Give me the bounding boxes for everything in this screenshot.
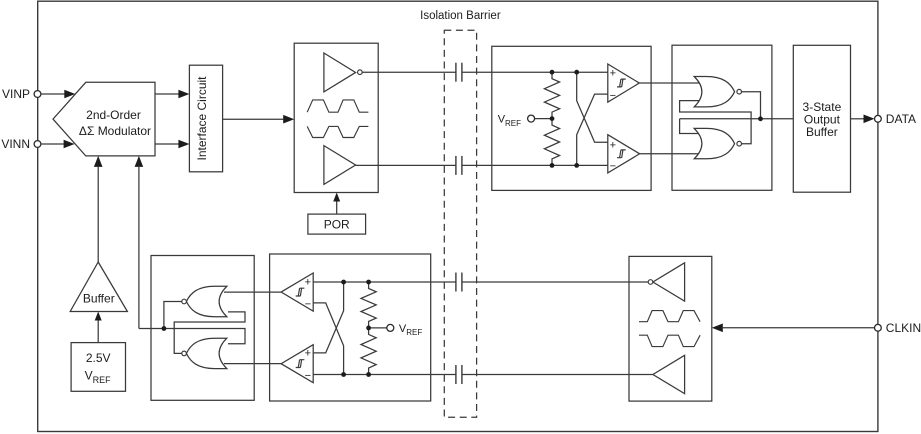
wire POR to TX block [333, 193, 340, 215]
3-state output buffer block [793, 45, 850, 192]
wire VINP to modulator [41, 90, 75, 99]
wire C3 to comparator block top line [313, 281, 456, 283]
pin VINN [1, 137, 41, 151]
svg-text:VINP: VINP [2, 87, 30, 101]
comparator U1 [608, 64, 640, 102]
NOR gate G3 [182, 286, 227, 316]
label: Isolation Barrier [420, 10, 501, 22]
buffer (VREF buffer) triangle [70, 262, 127, 312]
wire output node to G4 input [164, 329, 245, 344]
wire U3 output to NOR G3 [224, 291, 281, 293]
wire 2.5V VREF to buffer [95, 312, 102, 343]
wire U1 output to NOR G1 [639, 82, 703, 84]
buffer A3 (inverting, clock top) [648, 263, 684, 301]
svg-text:−: − [610, 90, 616, 102]
buffer A2 (TX bottom) [324, 146, 356, 185]
comparator U4 [281, 345, 313, 383]
node VREF (top) [498, 114, 552, 128]
pin VINP [2, 87, 41, 101]
svg-text:2nd-Order: 2nd-Order [86, 108, 141, 122]
svg-text:−: − [305, 370, 311, 382]
wire C4 to clock receiver A4 [462, 374, 653, 376]
buffer A1 (inverting, TX top) [324, 53, 362, 92]
buffer A4 (clock bottom) [653, 355, 685, 393]
wire C1 to comparator U1 + input [462, 71, 608, 73]
wire cross-couple from bottom line to U1 - input [577, 94, 608, 165]
svg-text:VINN: VINN [1, 137, 30, 151]
POR block [308, 214, 366, 234]
wire G3 output to output node [164, 302, 182, 329]
isolation barrier (dashed) [444, 30, 476, 417]
node clock latch output [162, 326, 167, 331]
wire VINN to modulator [41, 140, 75, 149]
svg-text:+: + [305, 277, 311, 289]
wire interface to TX block [223, 115, 295, 124]
wire U2 output to NOR G2 [640, 153, 703, 155]
svg-text:Interface Circuit: Interface Circuit [195, 76, 209, 161]
waveform glyph (TX lower) [307, 126, 368, 137]
wire A2 output to C2 [356, 164, 456, 166]
svg-text:2.5V: 2.5V [86, 351, 111, 365]
svg-text:Isolation Barrier: Isolation Barrier [420, 10, 501, 22]
resistor R3 [361, 282, 376, 328]
resistor R2 [544, 119, 559, 166]
pin CLKIN [875, 321, 921, 335]
svg-text:VREF: VREF [399, 323, 422, 337]
node Q (latch output) [758, 116, 763, 121]
junction dots (clock RX) [341, 280, 371, 377]
wire G1 output to output node [742, 92, 761, 119]
svg-text:CLKIN: CLKIN [886, 321, 921, 335]
wire A1 output to C1 [362, 71, 456, 73]
wire C3 to clock receiver A3 [462, 281, 648, 283]
wire cross-couple from top line to U4 + input [313, 282, 343, 353]
SR latch block box (top) [672, 45, 772, 190]
svg-text:DATA: DATA [886, 112, 916, 126]
wire C4 to comparator block bottom line [313, 374, 456, 376]
svg-text:+: + [610, 139, 616, 151]
clock receiver block box [629, 256, 712, 401]
interface circuit block [189, 65, 222, 172]
NOR gate G2 [694, 128, 741, 158]
svg-text:VREF: VREF [85, 368, 112, 384]
wire G2 output feedback to G1 input [680, 101, 752, 144]
svg-text:Buffer: Buffer [83, 291, 115, 305]
svg-text:ΔΣ Modulator: ΔΣ Modulator [79, 124, 151, 138]
NOR gate G4 [182, 338, 227, 368]
wire latch output to 3-state buffer [680, 118, 794, 120]
wire CLKIN to clock receiver [712, 324, 875, 333]
TX driver block box [294, 43, 378, 192]
wire U4 output to NOR G4 [224, 363, 281, 365]
wire buffer to modulator [94, 156, 103, 262]
SR latch block box (clock) [151, 256, 254, 401]
junction dots (top RX) [550, 70, 580, 168]
capacitor C3 [456, 273, 462, 292]
capacitor C1 [456, 63, 462, 82]
svg-text:VREF: VREF [498, 114, 521, 128]
wire modulator to interface (top) [155, 90, 189, 99]
resistor R4 [361, 328, 376, 375]
pin DATA [875, 112, 917, 126]
capacitor C2 [456, 156, 462, 175]
svg-text:−: − [305, 299, 311, 311]
2.5V VREF block [71, 343, 125, 392]
comparator U2 [608, 135, 640, 173]
wire cross-couple from top line to U2 + input [577, 72, 608, 142]
waveform glyph (clock lower) [639, 335, 700, 346]
wire modulator to interface (bottom) [155, 140, 189, 149]
wire C2 to comparator U2 - input [462, 164, 608, 166]
wire 3-state buffer to DATA pin [851, 115, 875, 124]
wire output node to G2 input [680, 119, 703, 134]
svg-text:Buffer: Buffer [806, 125, 838, 139]
svg-text:+: + [610, 67, 616, 79]
node VREF (clock) [369, 323, 423, 337]
resistor R1 [544, 72, 559, 118]
wire cross-couple from bottom line to U3 - input [313, 303, 343, 375]
capacitor C4 [456, 365, 462, 384]
waveform glyph (TX upper) [307, 100, 368, 112]
svg-text:−: − [610, 161, 616, 173]
comparator U3 [281, 273, 313, 311]
svg-text:+: + [305, 348, 311, 360]
waveform glyph (clock upper) [639, 311, 700, 322]
svg-text:POR: POR [324, 218, 350, 232]
comparator block box (clock) [270, 254, 431, 401]
wire clock latch output to modulator [135, 156, 164, 329]
RX comparator block box (top) [492, 46, 651, 190]
NOR gate G1 [694, 77, 741, 107]
wire G4 output feedback to G3 input [174, 312, 245, 354]
2nd-order delta-sigma modulator block [53, 82, 155, 156]
